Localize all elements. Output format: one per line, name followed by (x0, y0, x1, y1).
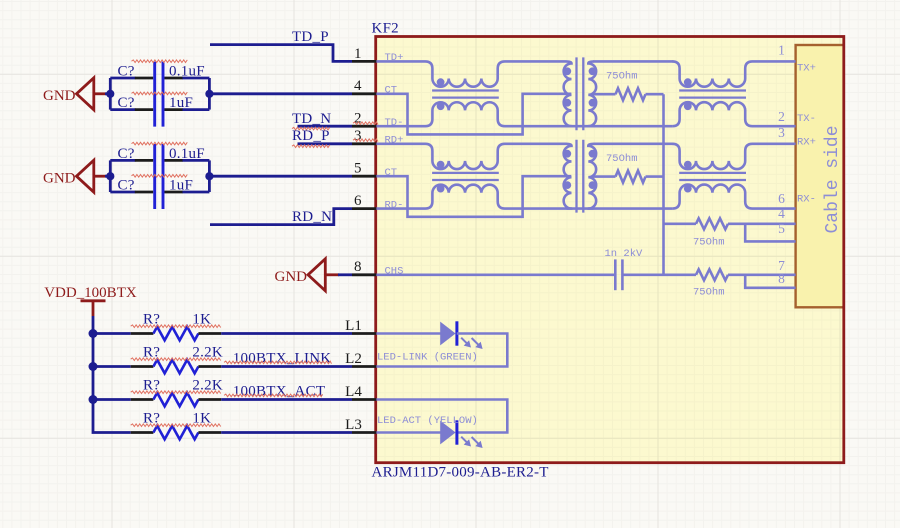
svg-text:TD_N: TD_N (292, 111, 331, 127)
pin 1 (352, 46, 376, 62)
squiggle cap top (132, 142, 188, 145)
pin L3 (345, 417, 376, 433)
svg-text:C?: C? (118, 178, 135, 194)
svg-text:TD-: TD- (385, 117, 404, 129)
svg-text:1: 1 (778, 43, 785, 58)
squiggle TD_N (292, 127, 330, 130)
comment ARJM11D7-009-AB-ER2-T (372, 464, 549, 480)
svg-text:C?: C? (118, 64, 135, 80)
svg-text:RD-: RD- (385, 199, 404, 211)
squiggle resistor row 3 (131, 391, 221, 394)
svg-text:VDD_100BTX: VDD_100BTX (44, 285, 137, 301)
label C? top (118, 146, 135, 162)
cable pin number 5 (778, 221, 785, 236)
TD transformer left winding (563, 61, 571, 126)
svg-text:1uF: 1uF (169, 178, 193, 194)
svg-text:TD+: TD+ (385, 52, 404, 64)
LED yellow, LED-ACT (376, 420, 482, 448)
value 0.1uF (169, 146, 205, 162)
squiggle resistor row 4 (131, 424, 221, 427)
svg-text:6: 6 (778, 191, 785, 206)
TD center-tap wire (376, 94, 571, 135)
svg-text:5: 5 (354, 161, 362, 177)
wire to CT pin (209, 92, 352, 95)
resistor R? 2.2K row 3 (93, 377, 352, 406)
cable pin number 1 (778, 43, 785, 58)
net label RD_P (292, 128, 330, 144)
capacitor network at CT (110, 78, 209, 110)
svg-text:CHS: CHS (385, 266, 404, 278)
cable pin number 4 (778, 206, 785, 221)
wire TD_N (298, 125, 353, 128)
svg-text:75Ohm: 75Ohm (693, 237, 725, 249)
RD cable-side choke top winding (672, 144, 795, 169)
net label 100BTX_LINK (233, 351, 332, 367)
RD transformer left winding (563, 144, 571, 209)
svg-text:L3: L3 (345, 417, 362, 433)
squiggle cap top (132, 60, 188, 63)
svg-text:75Ohm: 75Ohm (606, 70, 638, 82)
svg-text:0.1uF: 0.1uF (169, 146, 205, 162)
squiggle resistor row 1 (131, 325, 221, 328)
cable pin name RX- (797, 194, 816, 206)
value 1uF (169, 95, 193, 111)
pin 2 (352, 111, 376, 127)
label LED-ACT (YELLOW) (377, 415, 478, 427)
RD cable-side choke bottom winding (672, 185, 795, 209)
svg-text:2: 2 (778, 109, 785, 124)
TD cable-side choke top winding (672, 61, 795, 86)
TD cable-side choke bottom winding (672, 102, 795, 126)
pin 4 (352, 78, 376, 94)
svg-text:RX+: RX+ (797, 136, 816, 148)
pin name TD+ (385, 52, 404, 64)
cable pin number 3 (778, 125, 785, 140)
pin L4 (345, 384, 376, 400)
svg-text:3: 3 (778, 125, 785, 140)
pin name RD- (385, 199, 404, 211)
squiggle cap mid (132, 175, 188, 178)
cable pin name TX+ (797, 63, 816, 75)
TD choke core (432, 91, 499, 98)
svg-text:8: 8 (778, 271, 785, 286)
pin name RD+ (385, 135, 404, 147)
capacitor C? 0.1uF leads (135, 78, 183, 110)
label C? top (118, 64, 135, 80)
component KF2 body (376, 37, 844, 463)
capacitor C? 0.1uF leads (135, 160, 183, 192)
svg-text:Cable side: Cable side (823, 125, 843, 233)
ground GND (top caps) (43, 78, 108, 110)
net label TD_P (292, 29, 329, 45)
capacitor 1n 2kV (605, 248, 644, 290)
svg-text:C?: C? (118, 146, 135, 162)
junction dots (106, 172, 213, 180)
resistor R? 1K row 4 (131, 410, 352, 439)
label LED-LINK (GREEN) (377, 351, 478, 363)
value 0.1uF (169, 64, 205, 80)
svg-text:KF2: KF2 (372, 21, 399, 37)
svg-text:GND: GND (275, 269, 308, 285)
svg-text:TD_P: TD_P (292, 29, 329, 45)
RD choke bottom winding (376, 185, 672, 209)
svg-text:TX-: TX- (797, 113, 816, 125)
label Cable side (823, 125, 843, 233)
resistor 75Ohm (4) (693, 269, 796, 298)
svg-text:6: 6 (354, 193, 362, 209)
svg-text:5: 5 (778, 221, 785, 236)
RD center-tap wire (376, 176, 571, 217)
pin name CT (385, 167, 398, 179)
resistor 75Ohm (3) (664, 218, 796, 248)
squiggle 100BTX_LINK (224, 361, 332, 364)
svg-text:100BTX_ACT: 100BTX_ACT (233, 383, 325, 399)
svg-text:CT: CT (385, 85, 398, 97)
svg-text:TX+: TX+ (797, 63, 816, 75)
cable pin number 7 (778, 258, 785, 273)
svg-text:4: 4 (778, 206, 785, 221)
svg-text:L4: L4 (345, 384, 362, 400)
pin name CT (385, 85, 398, 97)
squiggle cap mid (132, 92, 188, 95)
svg-text:CT: CT (385, 167, 398, 179)
svg-text:ARJM11D7-009-AB-ER2-T: ARJM11D7-009-AB-ER2-T (372, 464, 549, 480)
svg-text:8: 8 (354, 259, 362, 275)
ground GND (mid caps) (43, 160, 108, 192)
resistor R? 2.2K row 2 (93, 344, 352, 373)
svg-text:RD+: RD+ (385, 135, 404, 147)
svg-text:C?: C? (118, 95, 135, 111)
svg-text:RX-: RX- (797, 194, 816, 206)
wire LED-LINK loop (376, 334, 507, 367)
cable pin number 6 (778, 191, 785, 206)
svg-text:RD_P: RD_P (292, 128, 330, 144)
resistor R? 1K row 1 (93, 311, 352, 340)
TD common-mode choke left, top winding (376, 61, 566, 86)
cable pin name TX- (797, 113, 816, 125)
svg-text:1n 2kV: 1n 2kV (605, 248, 644, 260)
wire pin8 branch (745, 275, 795, 288)
pin 8 (352, 259, 376, 275)
wire RD_N (210, 209, 352, 225)
wire TD_P (210, 45, 352, 62)
capacitor plates (155, 144, 163, 209)
LED green, LED-LINK (376, 321, 482, 349)
svg-text:0.1uF: 0.1uF (169, 64, 205, 80)
RD cable-side choke core (679, 173, 746, 180)
net label 100BTX_ACT (233, 383, 325, 399)
pin L2 (345, 351, 376, 367)
junction dot row 2 (89, 362, 98, 371)
svg-text:LED-LINK (GREEN): LED-LINK (GREEN) (377, 351, 478, 363)
TD cable-side choke core (679, 91, 746, 98)
wire LED-ACT loop (376, 400, 507, 433)
RD wire transformer to cable choke (594, 143, 674, 146)
pin L1 (345, 318, 376, 334)
resistor 75Ohm (2) (592, 153, 664, 183)
svg-text:GND: GND (43, 88, 76, 104)
svg-text:4: 4 (354, 78, 362, 94)
pin 5 (352, 161, 376, 177)
net label TD_N (292, 111, 331, 127)
squiggle RD_P (292, 145, 330, 148)
wire RD_P (298, 142, 353, 145)
svg-text:75Ohm: 75Ohm (693, 287, 725, 299)
inner box Cable side (796, 45, 844, 307)
RD transformer right winding (588, 144, 596, 209)
label C? bottom (118, 178, 135, 194)
svg-text:L2: L2 (345, 351, 362, 367)
svg-text:1: 1 (354, 46, 362, 62)
svg-text:LED-ACT (YELLOW): LED-ACT (YELLOW) (377, 415, 478, 427)
squiggle 100BTX_ACT (224, 394, 323, 397)
cable pin name RX+ (797, 136, 816, 148)
value 1uF (169, 178, 193, 194)
pin 6 (352, 193, 376, 209)
RD transformer core (577, 140, 584, 213)
pin 3 (352, 128, 376, 144)
TD choke bottom winding (376, 102, 672, 126)
vertical termination bus (662, 94, 665, 275)
cable pin number 8 (778, 271, 785, 286)
TD transformer core (577, 57, 584, 130)
junction dot row 1 (89, 329, 98, 338)
ground GND (CHS) (275, 259, 340, 291)
capacitor network at CT (110, 160, 209, 192)
capacitor plates (155, 62, 163, 127)
TD transformer right winding (588, 61, 596, 126)
svg-text:RD_N: RD_N (292, 209, 332, 225)
power port VDD_100BTX (44, 285, 137, 316)
wire CHS net (376, 273, 696, 276)
cable pin number 2 (778, 109, 785, 124)
svg-text:L1: L1 (345, 318, 362, 334)
wire to CT pin (209, 175, 352, 178)
squiggle resistor row 2 (131, 358, 221, 361)
squiggle pin3 (353, 139, 378, 142)
junction dots (106, 90, 213, 98)
component KF2 border (376, 37, 844, 463)
RD choke core (432, 173, 499, 180)
svg-text:100BTX_LINK: 100BTX_LINK (233, 351, 332, 367)
RD common-mode choke left, top winding (376, 144, 566, 169)
TD wire transformer to cable choke (594, 60, 674, 63)
net label RD_N (292, 209, 332, 225)
svg-text:1uF: 1uF (169, 95, 193, 111)
svg-text:GND: GND (43, 170, 76, 186)
wire pin5 branch (745, 224, 795, 242)
squiggle pin2 (353, 122, 378, 125)
junction dot row 3 (89, 395, 98, 404)
resistor 75Ohm (1) (592, 70, 664, 100)
wire VDD bus (93, 316, 131, 433)
svg-text:75Ohm: 75Ohm (606, 153, 638, 165)
label C? bottom (118, 95, 135, 111)
pin name TD- (385, 117, 404, 129)
pin name CHS (385, 266, 404, 278)
designator KF2 (372, 21, 399, 37)
